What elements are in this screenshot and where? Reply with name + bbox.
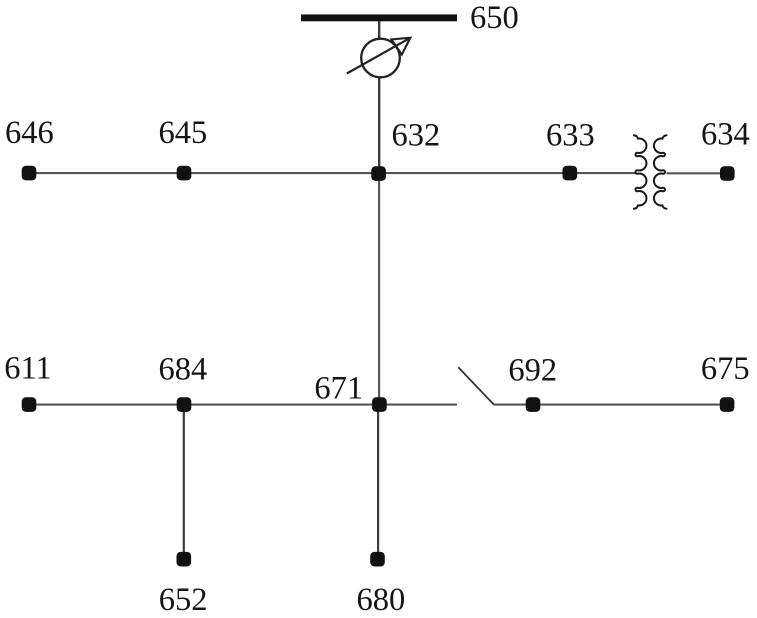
svg-text:680: 680 bbox=[357, 582, 406, 618]
node dot 680 bbox=[370, 552, 385, 567]
svg-text:634: 634 bbox=[701, 117, 750, 153]
wire: top feeder 646-645-632-633 to transformer bbox=[29, 172, 636, 174]
svg-text:633: 633 bbox=[546, 117, 595, 153]
node dot 611 bbox=[22, 397, 37, 412]
node dot 632 bbox=[371, 166, 386, 181]
bus bar 650 bbox=[301, 14, 457, 21]
svg-text:675: 675 bbox=[701, 351, 750, 387]
voltage regulator arrowhead bbox=[391, 38, 410, 55]
wire: main vertical feeder 632 to 671 bbox=[378, 173, 380, 405]
node dot 645 bbox=[177, 166, 192, 181]
node dot 652 bbox=[177, 552, 192, 567]
voltage regulator body (circle) bbox=[361, 39, 400, 78]
node dot 634 bbox=[720, 166, 735, 181]
svg-text:645: 645 bbox=[159, 115, 208, 151]
wire: riser from bus 650 through regulator to node 632 bbox=[378, 20, 380, 174]
svg-text:632: 632 bbox=[392, 117, 441, 153]
wire: lateral 671 to 680 bbox=[377, 405, 379, 559]
transformer XFM-1 right winding bbox=[654, 135, 667, 209]
node dot 671 bbox=[372, 397, 387, 412]
svg-text:671: 671 bbox=[314, 370, 363, 406]
svg-text:646: 646 bbox=[5, 115, 54, 151]
wire: lateral 684 to 652 bbox=[183, 405, 185, 559]
svg-text:692: 692 bbox=[508, 352, 557, 388]
svg-text:684: 684 bbox=[159, 351, 208, 387]
wire: bottom feeder 611-684-671 to switch bbox=[29, 404, 457, 406]
node dot 684 bbox=[177, 397, 192, 412]
svg-text:611: 611 bbox=[4, 350, 52, 386]
wire: transformer to node 634 bbox=[667, 172, 728, 174]
node dot 675 bbox=[720, 397, 735, 412]
node dot 633 bbox=[563, 166, 578, 181]
svg-text:650: 650 bbox=[470, 0, 519, 36]
svg-text:652: 652 bbox=[159, 582, 208, 618]
node dot 646 bbox=[22, 166, 37, 181]
node dot 692 bbox=[526, 397, 541, 412]
voltage regulator arrow shaft bbox=[347, 38, 410, 73]
wire: switch to 692 to 675 bbox=[494, 404, 728, 406]
transformer XFM-1 left winding bbox=[634, 135, 647, 209]
switch blade (open switch between 671 and 692) bbox=[458, 367, 494, 405]
